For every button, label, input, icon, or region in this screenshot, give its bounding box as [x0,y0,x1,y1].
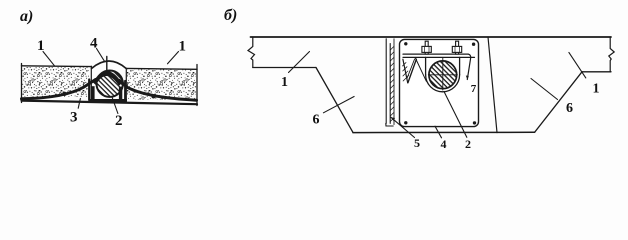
svg-text:6: 6 [566,101,573,116]
bolt 2 stem [456,41,459,54]
stirrup left vertical [425,57,427,74]
slab top line right [126,67,197,70]
left pit slope [316,68,353,133]
diagonal brace [415,57,426,81]
left edge vertical [21,64,23,103]
screw dot BL [404,121,407,124]
curl arrowhead [466,76,469,80]
leader 5 arrowhead [391,117,395,121]
svg-text:2: 2 [115,113,123,129]
membrane waterproofing tent sides [22,80,197,101]
membrane down left wall [88,80,90,101]
svg-text:4: 4 [441,137,447,151]
leader 1 left b [289,52,310,73]
recess wall left [90,66,92,99]
strip hatch ticks [390,46,394,121]
bolt 1 stem [425,41,428,54]
clamp bar top line [403,53,468,55]
slab stipple right [127,70,196,100]
screw dot TL [404,42,407,45]
svg-text:5: 5 [414,136,420,150]
screw dot BR [473,121,476,124]
svg-text:4: 4 [90,36,98,52]
right bar [119,87,122,101]
compensator strip line 2 [389,44,391,124]
svg-text:2: 2 [465,137,471,151]
right break mark [609,37,614,72]
svg-text:1: 1 [179,39,187,55]
right edge vertical [196,65,198,106]
strip inner vertical [393,39,395,125]
funnel V right stroke [408,59,417,83]
leader 4 b [435,126,442,138]
stirrup right vertical [459,57,461,74]
membrane apex band over gasket [93,71,122,86]
svg-text:1: 1 [593,82,600,97]
arch cover plate outline [92,61,127,69]
screw dot TR [472,43,475,46]
bolt 2 nut [452,46,461,52]
wall hatch ticks [403,63,409,82]
clamp bar bottom line [403,56,475,58]
leader 6 right b [531,79,558,100]
stirrup saddle arc [426,75,460,92]
compensator strip line 1 [385,39,387,124]
housing box [400,39,479,126]
recess floor band [89,99,128,102]
roller circle [429,61,457,89]
gasket circle C [97,71,123,97]
svg-text:3: 3 [70,110,78,126]
right slab bottom line [582,71,611,73]
bar right end curl [467,54,470,79]
pit floor [353,131,535,133]
right pit slope [535,72,582,133]
slab top line left [22,65,92,68]
roller cross horizontal [428,74,457,76]
bolt 1 nut [422,46,431,52]
svg-text:6: 6 [313,113,320,128]
slab stipple left [22,67,89,97]
svg-text:1: 1 [281,75,288,90]
leader 4 [97,49,105,62]
bottom line [22,101,198,105]
svg-text:7: 7 [471,83,477,95]
joint axis tick [106,57,108,71]
leader 6 left b [323,97,354,113]
leader 1 left [43,52,55,66]
leader 1 right [168,52,179,64]
rivet dot left [62,92,66,96]
strip foot flange [386,123,393,126]
right slab end face [488,37,497,133]
recess wall right [125,68,127,101]
leader 2 left fig [112,98,118,114]
rivet dot right [151,94,155,98]
leader 1 right b [569,52,586,78]
svg-text:1: 1 [37,38,45,54]
roadway top line [251,36,612,38]
membrane down right wall [124,81,126,102]
left break mark [248,37,255,68]
leader 3 [78,99,80,109]
roller cross vertical [442,57,444,90]
svg-text:а): а) [20,8,33,25]
svg-text:б): б) [224,7,237,24]
funnel inner stroke [407,59,415,79]
funnel V left stroke [403,59,408,83]
left bar [91,86,94,100]
left slab bottom line [253,67,316,69]
leader 2 b [444,92,467,138]
leader 5 [391,117,415,137]
